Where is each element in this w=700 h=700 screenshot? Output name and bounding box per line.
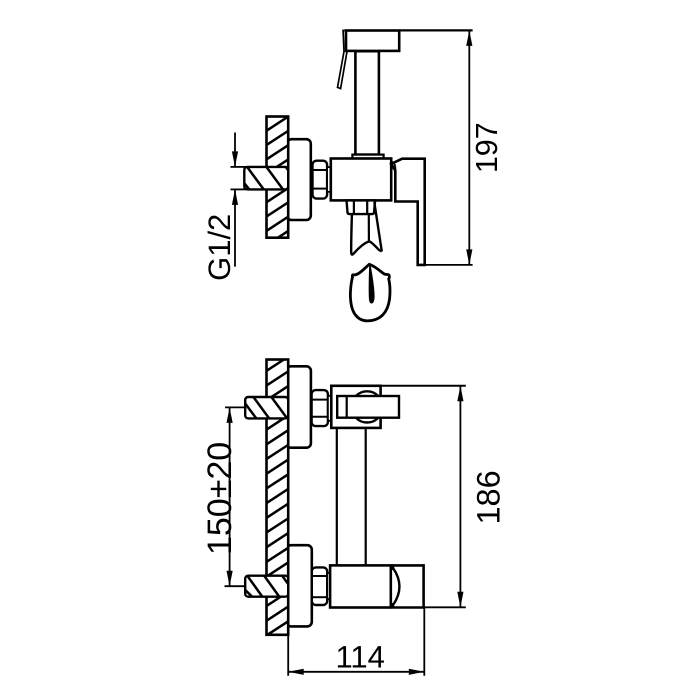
- valve body U1: [331, 159, 391, 201]
- wall W1 hatch lines: [265, 101, 290, 246]
- hex nut N3 (top): [312, 390, 328, 426]
- dimension 186: extension line top: [381, 385, 466, 387]
- pipe P3 hatch lines: [245, 574, 299, 598]
- wall section W1 (hatched): [267, 117, 289, 238]
- handle base flange F1: [352, 155, 383, 159]
- dimension 186: arrow up: [457, 386, 463, 402]
- pipe P3 outline: [245, 576, 288, 597]
- dimension G1/2: upper arrow down: [232, 151, 238, 167]
- dimension 186: arrow down: [457, 592, 463, 608]
- svg-text:186: 186: [470, 470, 506, 524]
- valve body B2 (bottom unit): [330, 565, 391, 607]
- dimension 114: extension line right: [423, 608, 425, 676]
- escutcheon plate E1 (wall flange, side view): [287, 139, 311, 220]
- pipe circle C1 (end-on): [352, 391, 383, 422]
- hex nut N4 (bottom): [312, 567, 327, 605]
- connector ring R2 (top): [328, 396, 331, 421]
- trigger lever T1: [338, 31, 347, 89]
- pipe P2 hatch lines: [244, 396, 304, 421]
- dimension 114: extension line left: [287, 627, 289, 676]
- escutcheon plate E3 (bottom): [287, 545, 312, 626]
- dimension 114: arrow right: [409, 669, 425, 675]
- hex nut N1 on inlet: [313, 161, 328, 199]
- dimension G1/2: extension line bottom: [231, 188, 247, 190]
- inlet pipe P2 (top, hatched): [245, 397, 288, 418]
- sprayer handle grip H1: [355, 51, 379, 154]
- handle arc A2: [393, 568, 400, 605]
- riser pipe left edge: [336, 428, 338, 566]
- pipe P2 outline: [245, 397, 288, 418]
- dimension G1/2: lower dimension line: [234, 189, 236, 266]
- dimension 186: extension line bottom: [424, 606, 466, 608]
- shower holder elbow B1 (top unit): [331, 386, 380, 428]
- connector ring R3 (bottom): [327, 573, 330, 599]
- dimension 150±20: dimension line: [229, 407, 231, 586]
- dimension 197: arrow down: [466, 249, 472, 265]
- sprayer head S1: [346, 31, 399, 51]
- dimension 150±20: extension line top: [225, 406, 246, 408]
- wall section W2 (hatched): [267, 360, 289, 635]
- dimension G1/2: lower arrow up: [232, 189, 238, 205]
- outlet nut N2 below body: [347, 200, 376, 214]
- dimension 197: extension line top: [400, 29, 473, 31]
- pipe P1 hatch lines: [244, 165, 304, 191]
- mixer handle L2 (end-on): [393, 565, 424, 607]
- riser pipe right edge: [365, 428, 367, 566]
- connector ring R1: [327, 167, 331, 192]
- dimension 186: dimension line: [459, 386, 461, 608]
- hose connector K1 (points right): [337, 396, 399, 418]
- dimension G1/2: extension line top: [231, 166, 247, 168]
- dimension 150±20: arrow up: [227, 407, 233, 423]
- escutcheon plate E2 (top): [286, 366, 311, 447]
- svg-text:150±20: 150±20: [201, 442, 239, 555]
- dimension 150±20: arrow down: [227, 571, 233, 587]
- water drop D1: [350, 264, 390, 321]
- dimension 114: dimension line: [288, 671, 424, 673]
- wall W2 hatch lines: [265, 341, 290, 651]
- connector collar line K2: [346, 396, 348, 418]
- dimension 150±20: extension line bottom: [225, 585, 246, 587]
- dimension 197: extension line bottom: [418, 264, 473, 266]
- dimension 114: arrow left: [288, 669, 304, 675]
- lever corner arc A1: [391, 162, 396, 171]
- dimension G1/2: upper dimension line: [234, 133, 236, 167]
- dimension 197: dimension line: [468, 30, 470, 265]
- svg-text:114: 114: [335, 640, 384, 675]
- inlet pipe P1 through wall (hatched section): [244, 167, 288, 190]
- spray nozzle skirt Z1: [351, 202, 382, 254]
- mixer lever L1 (side view): [391, 159, 425, 265]
- dimension 197: arrow up: [466, 30, 472, 46]
- pipe P1 outline: [244, 167, 288, 190]
- inlet pipe P3 (bottom, hatched): [245, 576, 288, 597]
- svg-text:G1/2: G1/2: [202, 214, 237, 281]
- svg-text:197: 197: [470, 122, 504, 173]
